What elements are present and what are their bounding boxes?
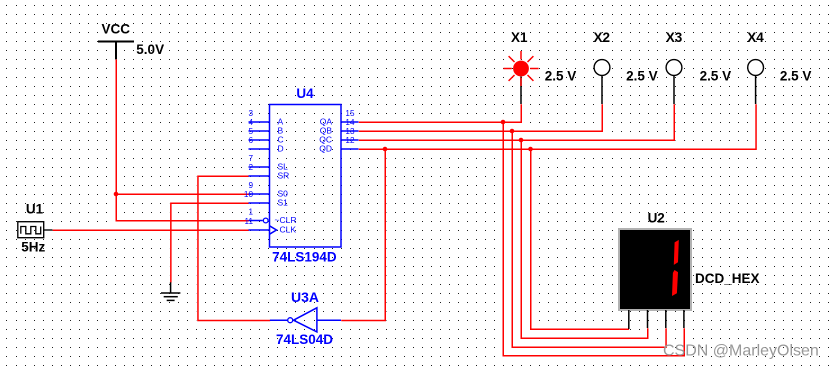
svg-text:5: 5 [248, 127, 253, 136]
svg-text:U1: U1 [26, 202, 44, 217]
pin 5 stub C [249, 139, 270, 141]
svg-text:74LS04D: 74LS04D [276, 332, 333, 347]
U2 pin stubs [629, 310, 684, 329]
svg-text:5.0V: 5.0V [136, 42, 164, 57]
U4 pin names [275, 117, 333, 235]
svg-text:X4: X4 [747, 30, 764, 45]
wire QD pin12 to X4 [359, 104, 756, 149]
power VCC [98, 42, 134, 60]
pin 2 stub SR [249, 175, 270, 177]
svg-text:15: 15 [345, 109, 355, 118]
pin 15 stub QA [341, 121, 359, 123]
svg-text:74LS194D: 74LS194D [272, 250, 337, 265]
pin 7 stub SL [249, 166, 270, 168]
wire S1 pin10 to ground [171, 203, 249, 282]
svg-text:U4: U4 [296, 86, 314, 101]
svg-text:VCC: VCC [102, 22, 131, 37]
wire VCC to S0 pin9 [116, 193, 249, 195]
lamp X1 lit [503, 51, 538, 86]
wire QA branch down to display pin D [503, 122, 684, 356]
wire VCC down then to ~CLR pin1 [116, 194, 249, 221]
svg-text:4: 4 [248, 118, 253, 127]
lamp X2 [594, 60, 610, 76]
seven segment display U2 DCD_HEX [619, 229, 691, 310]
pin 10 stub S1 [249, 202, 270, 204]
wire QB branch down to display pin C [512, 131, 666, 347]
svg-text:13: 13 [345, 127, 355, 136]
pin 4 stub B [249, 130, 270, 132]
svg-text:SR: SR [278, 171, 290, 181]
lamp X4 [748, 60, 764, 76]
wire QD branch down to display pin A [531, 149, 629, 329]
wire QC branch down to display pin B [521, 140, 648, 338]
svg-text:3: 3 [248, 109, 253, 118]
clock source U1 [18, 222, 53, 238]
svg-text:9: 9 [248, 181, 253, 190]
clock input marker [270, 226, 277, 234]
svg-text:5Hz: 5Hz [21, 239, 45, 254]
svg-text:~CLR: ~CLR [275, 215, 297, 225]
wire white underlays [53, 59, 756, 355]
junction QC net [519, 138, 524, 143]
svg-text:10: 10 [244, 190, 254, 199]
svg-text:2.5 V: 2.5 V [545, 69, 577, 84]
shift register U4 74LS194D [249, 105, 359, 248]
inverter U3A 74LS04D [270, 308, 341, 332]
segment B lit [674, 240, 679, 265]
svg-text:X3: X3 [666, 30, 683, 45]
junction QA net [501, 120, 506, 125]
svg-text:2: 2 [248, 163, 253, 172]
svg-text:6: 6 [248, 136, 253, 145]
junction QD net display branch [528, 147, 533, 152]
svg-text:CLK: CLK [280, 225, 297, 235]
svg-text:1: 1 [248, 208, 253, 217]
pin 3 stub A [249, 121, 270, 123]
pin 9 stub S0 [249, 193, 270, 195]
U4 pin numbers left [244, 109, 254, 226]
wire VCC vertical to junction [115, 60, 117, 195]
svg-text:2.5 V: 2.5 V [626, 69, 658, 84]
svg-text:2.5 V: 2.5 V [780, 69, 812, 84]
X3 terminal stub [673, 75, 675, 104]
svg-text:12: 12 [345, 136, 355, 145]
junction QB net [510, 129, 515, 134]
svg-text:U2: U2 [648, 211, 665, 226]
junction QD net inverter branch [383, 147, 388, 152]
X1 terminal stub [520, 76, 522, 104]
svg-text:11: 11 [245, 217, 254, 226]
segment C lit [672, 270, 678, 296]
svg-text:U3A: U3A [291, 289, 319, 305]
svg-text:2.5 V: 2.5 V [700, 69, 732, 84]
svg-text:7: 7 [248, 154, 253, 163]
pin 13 stub QC [341, 139, 359, 141]
X2 terminal stub [601, 75, 603, 104]
svg-text:QD: QD [319, 144, 332, 154]
lamp X3 [666, 60, 682, 76]
wire QD branch down to inverter input [341, 149, 385, 320]
wire QC pin13 to X3 [359, 104, 675, 140]
pin 1 stub ~CLR with bubble [249, 220, 263, 222]
wire U1 output to CLK pin11 [53, 229, 249, 231]
pin 14 stub QB [341, 130, 359, 132]
pin 6 stub D [249, 148, 270, 150]
pin 12 stub QD [341, 148, 359, 150]
svg-text:DCD_HEX: DCD_HEX [695, 271, 760, 286]
svg-text:X2: X2 [594, 30, 611, 45]
svg-text:S1: S1 [278, 198, 289, 208]
svg-text:CSDN @MarleyOlsen: CSDN @MarleyOlsen [663, 342, 819, 359]
U4 pin numbers right [345, 109, 355, 145]
svg-text:14: 14 [345, 118, 355, 127]
wire inverter output to SR pin2 [198, 176, 270, 320]
ground [161, 282, 180, 300]
pin 11 stub CLK [249, 229, 270, 231]
wire QB pin14 to X2 [359, 104, 603, 131]
X4 terminal stub [755, 75, 757, 104]
wire QA pin15 to X1 [359, 104, 522, 122]
svg-text:X1: X1 [511, 30, 528, 45]
junction VCC net [114, 192, 119, 197]
svg-text:D: D [278, 144, 284, 154]
